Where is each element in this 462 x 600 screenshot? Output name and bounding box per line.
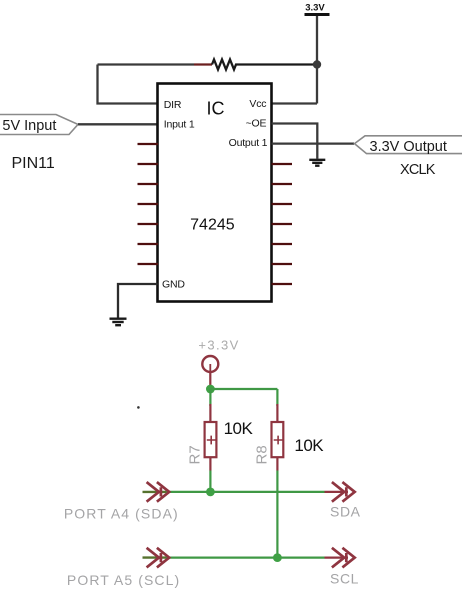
wire ~OE to ground [272, 124, 318, 159]
svg-text:~OE: ~OE [246, 118, 267, 130]
svg-text:SDA: SDA [330, 504, 361, 520]
junction on 3.3V rail [313, 60, 321, 68]
connector arrow SDA right [332, 482, 355, 502]
IC U1 74245 body [158, 84, 272, 302]
power flag 3.3V (bar) [305, 13, 330, 16]
svg-text:PORT A4 (SDA): PORT A4 (SDA) [64, 506, 179, 522]
connector arrow SCL left [147, 548, 170, 568]
supply +3.3V circle [202, 356, 218, 372]
svg-text:PIN11: PIN11 [12, 155, 55, 172]
wire R7 to SDA [209, 471, 211, 492]
wire to R8 [276, 389, 278, 406]
wire GND [118, 284, 158, 318]
resistor lead (red tint) [194, 63, 212, 65]
supply pin [209, 372, 211, 389]
svg-text:R8: R8 [254, 445, 271, 464]
svg-text:IC: IC [207, 99, 225, 119]
svg-text:DIR: DIR [164, 99, 182, 111]
svg-text:+3.3V: +3.3V [198, 338, 239, 353]
resistor R1 zigzag [212, 60, 317, 70]
unlabeled right pins [272, 164, 293, 284]
svg-text:10K: 10K [224, 419, 254, 438]
wire DIR loop [98, 65, 158, 104]
svg-text:PORT A5 (SCL): PORT A5 (SCL) [67, 572, 180, 588]
net flag 5V Input [0, 115, 78, 135]
wire supply node horizontal [210, 388, 277, 390]
svg-text:Output 1: Output 1 [229, 137, 268, 149]
svg-text:Input 1: Input 1 [164, 119, 195, 131]
stray dot [137, 406, 140, 409]
svg-text:74245: 74245 [190, 217, 235, 234]
svg-text:SCL: SCL [330, 571, 359, 587]
svg-text:3.3V Output: 3.3V Output [370, 139, 447, 155]
wire Output 1 [272, 142, 355, 144]
wire resistor rail horizontal [98, 63, 195, 65]
wire 3.3V rail vertical [316, 16, 318, 104]
svg-text:R7: R7 [187, 445, 204, 464]
svg-text:Vcc: Vcc [249, 98, 266, 110]
resistor R7 [205, 404, 217, 471]
ground (left) [110, 319, 127, 326]
wire R8 to SCL [276, 471, 278, 558]
resistor R8 [272, 404, 284, 471]
wire SDA [166, 491, 325, 493]
svg-text:XCLK: XCLK [400, 162, 436, 178]
junction at supply node [206, 385, 215, 394]
svg-text:GND: GND [162, 278, 185, 290]
connector pin SDA right [325, 491, 349, 493]
wire to R7 [209, 389, 211, 406]
net flag 3.3V Output [355, 136, 462, 154]
svg-text:3.3V: 3.3V [305, 3, 325, 14]
svg-text:5V Input: 5V Input [2, 118, 56, 134]
svg-text:10K: 10K [294, 436, 324, 455]
junction R8/SCL [273, 553, 282, 562]
junction R7/SDA [206, 488, 215, 497]
wire Input 1 [78, 123, 158, 125]
ground (right) [309, 160, 325, 166]
connector arrow SCL right [332, 548, 355, 568]
connector arrow SDA left [147, 482, 170, 502]
connector pin SCL left [143, 556, 167, 558]
connector pin SCL right [325, 556, 349, 558]
wire Vcc [272, 102, 318, 104]
unlabeled left pins [138, 144, 159, 264]
wire SCL [166, 556, 325, 558]
connector pin SDA left [143, 491, 167, 493]
